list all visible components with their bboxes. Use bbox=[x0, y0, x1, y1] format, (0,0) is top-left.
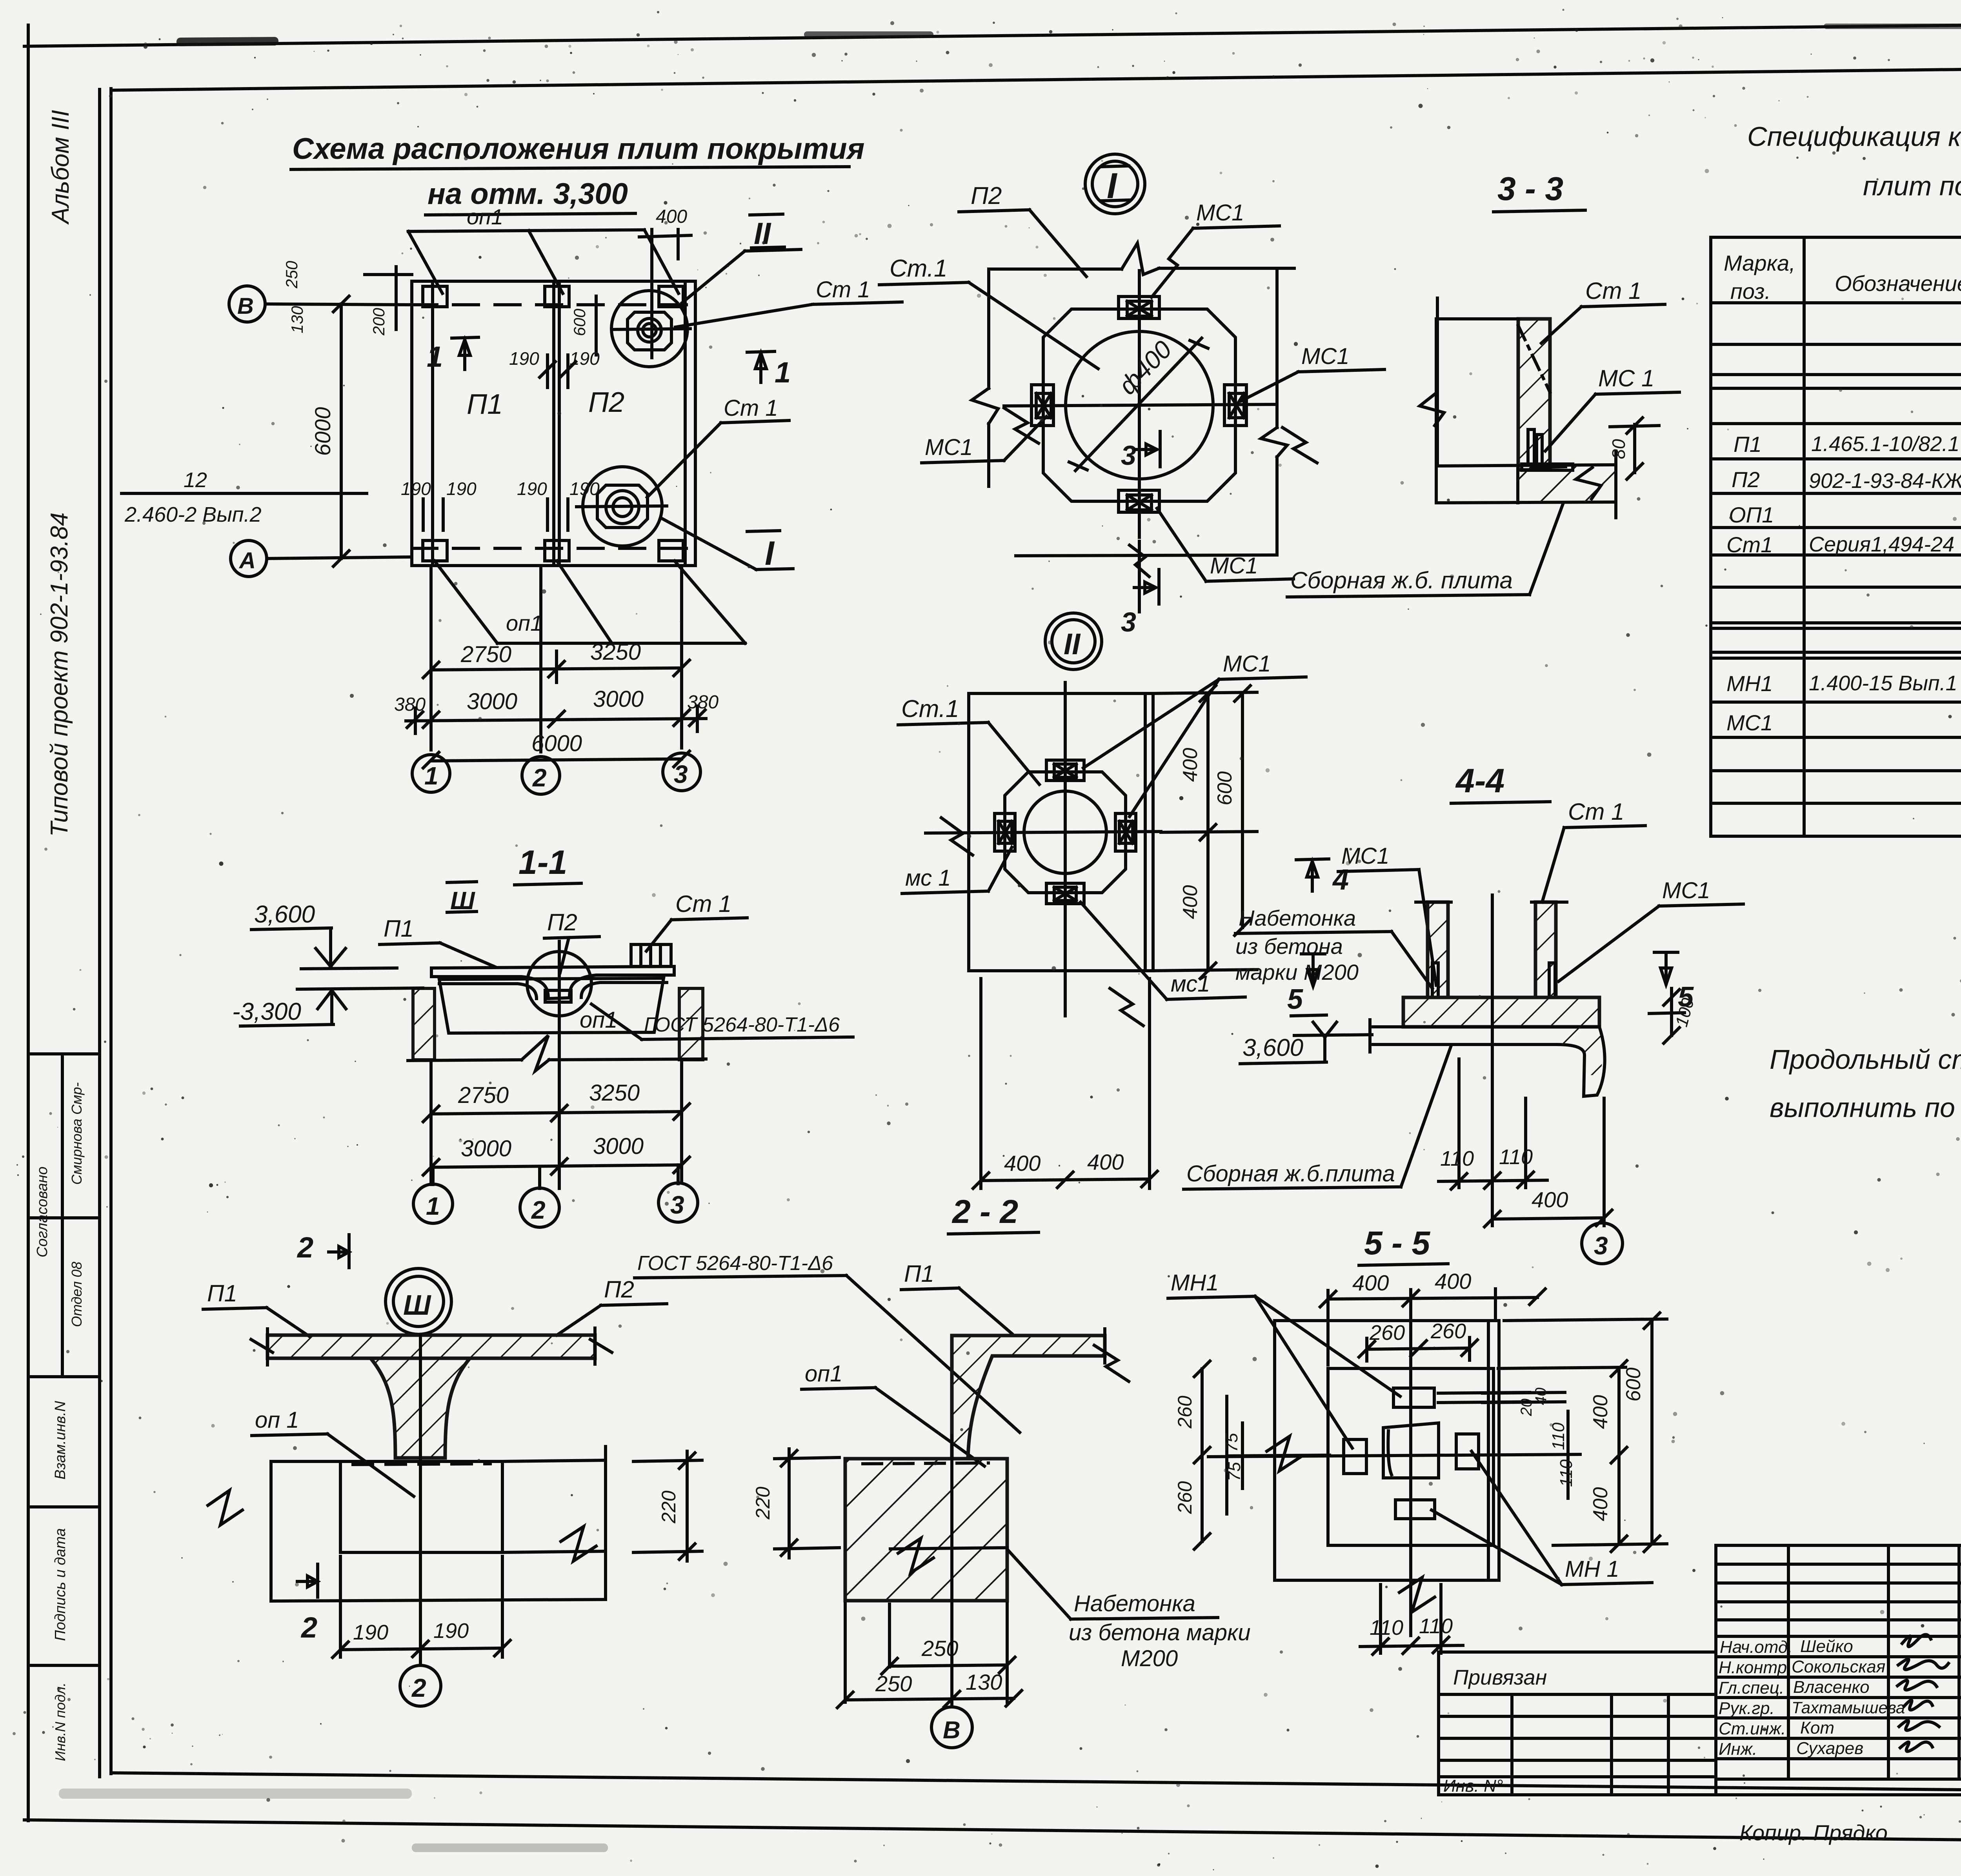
svg-text:100: 100 bbox=[1672, 996, 1698, 1029]
slab square bbox=[969, 693, 1153, 971]
svg-text:Подпись и дата: Подпись и дата bbox=[52, 1528, 69, 1641]
PLAN VIEW: layout of cover slabs bbox=[122, 204, 902, 794]
svg-text:Взам.инв.N: Взам.инв.N bbox=[52, 1401, 69, 1479]
svg-text:3 - 3: 3 - 3 bbox=[1497, 170, 1563, 207]
joint key bbox=[545, 990, 571, 1002]
svg-text:3: 3 bbox=[1121, 440, 1136, 471]
svg-text:МС1: МС1 bbox=[1210, 553, 1258, 579]
svg-text:МН1: МН1 bbox=[1726, 671, 1773, 696]
svg-text:1: 1 bbox=[775, 356, 791, 389]
svg-text:3: 3 bbox=[1121, 607, 1136, 637]
SECTION 2-2 bbox=[635, 1193, 1251, 1748]
octagon opening bbox=[1043, 309, 1235, 501]
svg-text:110: 110 bbox=[1549, 1422, 1568, 1450]
anchor pins MC1 bbox=[1432, 963, 1438, 997]
svg-text:оп1: оп1 bbox=[805, 1361, 842, 1387]
svg-text:1: 1 bbox=[426, 1192, 440, 1220]
svg-text:3000: 3000 bbox=[593, 1134, 644, 1159]
left dims 260 75 75 260 bbox=[1225, 1396, 1228, 1514]
svg-text:Тахтамышева: Тахтамышева bbox=[1792, 1698, 1905, 1717]
svg-text:190: 190 bbox=[517, 479, 547, 499]
svg-text:400: 400 bbox=[1352, 1270, 1389, 1295]
MC1 clips bbox=[1046, 760, 1084, 781]
svg-text:130: 130 bbox=[966, 1670, 1002, 1694]
svg-text:902-1-93-84-КЖН-П2: 902-1-93-84-КЖН-П2 bbox=[1809, 469, 1961, 493]
svg-text:П2: П2 bbox=[547, 909, 577, 935]
svg-text:5 - 5: 5 - 5 bbox=[1364, 1225, 1430, 1261]
dims 110 110 bbox=[1457, 1059, 1461, 1188]
svg-text:Нач.отд.: Нач.отд. bbox=[1720, 1638, 1792, 1657]
svg-text:380: 380 bbox=[687, 692, 719, 713]
svg-text:ф400: ф400 bbox=[1113, 335, 1177, 400]
svg-text:марки М200: марки М200 bbox=[1235, 960, 1359, 984]
svg-text:поз.: поз. bbox=[1730, 279, 1771, 304]
SECTION 5-5 bbox=[1168, 1225, 1667, 1654]
svg-text:Власенко: Власенко bbox=[1793, 1678, 1870, 1697]
svg-text:2: 2 bbox=[297, 1231, 313, 1264]
svg-text:Типовой проект 902-1-93.84: Типовой проект 902-1-93.84 bbox=[46, 513, 73, 837]
glass St1 top: detail circle bbox=[611, 291, 688, 367]
svg-text:3000: 3000 bbox=[593, 686, 644, 712]
svg-text:3,600: 3,600 bbox=[1242, 1034, 1303, 1061]
svg-text:Обозначение: Обозначение bbox=[1835, 271, 1961, 296]
flange band hatched bbox=[1403, 997, 1599, 1027]
svg-text:Ст 1: Ст 1 bbox=[724, 395, 778, 421]
break on center vertical bbox=[1399, 1578, 1435, 1612]
svg-text:из бетона марки: из бетона марки bbox=[1069, 1620, 1251, 1645]
svg-text:75: 75 bbox=[1225, 1462, 1244, 1481]
svg-text:Схема расположения плит покрыт: Схема расположения плит покрытия bbox=[292, 132, 864, 166]
svg-text:В: В bbox=[237, 293, 254, 319]
svg-text:Инв.N подл.: Инв.N подл. bbox=[52, 1683, 68, 1761]
svg-text:220: 220 bbox=[658, 1490, 680, 1524]
svg-text:2: 2 bbox=[532, 764, 547, 792]
svg-text:190: 190 bbox=[569, 479, 600, 499]
svg-text:400: 400 bbox=[656, 206, 687, 227]
svg-text:П1: П1 bbox=[467, 389, 503, 420]
right dims 400 400 bbox=[1498, 1367, 1626, 1368]
joint between slabs bbox=[552, 281, 555, 566]
svg-text:Альбом III: Альбом III bbox=[47, 110, 74, 225]
svg-text:1: 1 bbox=[427, 340, 443, 373]
bottom precast slab bbox=[1436, 465, 1616, 466]
svg-text:260: 260 bbox=[1430, 1319, 1466, 1343]
dims 2750 3250 bbox=[429, 1063, 433, 1185]
bottom dims bbox=[888, 1604, 891, 1667]
centerlines bbox=[1138, 271, 1141, 537]
grid bubble 3 bbox=[1582, 1223, 1623, 1264]
svg-text:А: А bbox=[238, 548, 256, 573]
svg-text:110: 110 bbox=[1370, 1616, 1403, 1639]
svg-text:Гл.спец.: Гл.спец. bbox=[1719, 1678, 1784, 1698]
named rows bbox=[1716, 1635, 1961, 1638]
dims 190 190 bbox=[339, 1556, 342, 1657]
svg-text:Отдел 08: Отдел 08 bbox=[69, 1262, 85, 1327]
svg-text:190: 190 bbox=[446, 479, 477, 499]
svg-text:ГОСТ 5264-80-Т1-Δ6: ГОСТ 5264-80-Т1-Δ6 bbox=[644, 1014, 840, 1036]
grid bubbles bbox=[431, 1167, 435, 1185]
svg-text:190: 190 bbox=[353, 1621, 388, 1644]
vertical dim 6000 left bbox=[340, 304, 343, 559]
right dim 600 bbox=[1504, 1319, 1667, 1321]
DETAIL I bbox=[879, 154, 1384, 637]
svg-text:1: 1 bbox=[424, 762, 438, 790]
inner square (glass plan) bbox=[1328, 1368, 1493, 1545]
grid bubbles 1 2 3 bbox=[412, 755, 450, 792]
svg-text:Сборная ж.б.плита: Сборная ж.б.плита bbox=[1186, 1161, 1395, 1186]
svg-text:3000: 3000 bbox=[467, 689, 517, 714]
svg-text:3250: 3250 bbox=[589, 1080, 640, 1106]
svg-text:ОП1: ОП1 bbox=[1729, 502, 1774, 527]
svg-text:II: II bbox=[754, 216, 771, 251]
svg-text:Шейко: Шейко bbox=[1800, 1637, 1853, 1656]
svg-text:3: 3 bbox=[1594, 1232, 1608, 1260]
svg-text:плит покрытия: плит покрытия bbox=[1863, 171, 1961, 201]
svg-text:Ст1: Ст1 bbox=[1726, 532, 1773, 557]
svg-text:260: 260 bbox=[1174, 1481, 1196, 1514]
St1 sleeve above bbox=[631, 944, 671, 966]
svg-text:П1: П1 bbox=[207, 1280, 237, 1306]
svg-text:оп1: оп1 bbox=[467, 204, 503, 229]
svg-text:МС1: МС1 bbox=[1196, 200, 1244, 226]
svg-text:на отм. 3,300: на отм. 3,300 bbox=[427, 177, 628, 211]
svg-text:2 - 2: 2 - 2 bbox=[951, 1193, 1018, 1230]
svg-text:оп 1: оп 1 bbox=[255, 1407, 299, 1433]
svg-text:Ст.1: Ст.1 bbox=[901, 695, 959, 722]
detail mark III double circle bbox=[386, 1268, 451, 1334]
small dims 20 40 bbox=[1483, 1392, 1565, 1393]
svg-text:Сборная ж.б. плита: Сборная ж.б. плита bbox=[1290, 567, 1513, 593]
svg-text:3: 3 bbox=[674, 760, 688, 788]
svg-text:Копир. Прядко: Копир. Прядко bbox=[1739, 1820, 1888, 1845]
svg-text:190: 190 bbox=[401, 479, 431, 499]
MC1 clip left bbox=[1031, 385, 1053, 426]
centerline + bubble 2 bbox=[419, 1336, 422, 1665]
SECTION 3-3 bbox=[1287, 170, 1679, 597]
svg-text:П2: П2 bbox=[971, 182, 1002, 209]
svg-text:250: 250 bbox=[282, 260, 301, 289]
signature squiggles bbox=[1902, 1634, 1931, 1647]
surrounding foundation outline bbox=[271, 1460, 340, 1463]
centerlines bbox=[1064, 682, 1067, 1016]
svg-text:12: 12 bbox=[184, 468, 207, 492]
dim 100 right bbox=[1670, 988, 1673, 1035]
svg-text:Смирнова Смр-: Смирнова Смр- bbox=[69, 1082, 85, 1185]
svg-text:1.465.1-10/82.1 -01: 1.465.1-10/82.1 -01 bbox=[1811, 432, 1961, 456]
glass St1 bottom: detail circle I bbox=[583, 467, 662, 546]
svg-text:П2: П2 bbox=[588, 387, 624, 418]
svg-text:2750: 2750 bbox=[460, 642, 511, 667]
svg-text:250: 250 bbox=[875, 1671, 912, 1696]
svg-text:Сокольская: Сокольская bbox=[1792, 1657, 1885, 1676]
MC1 clip right bbox=[1224, 385, 1246, 426]
svg-text:190: 190 bbox=[433, 1619, 469, 1643]
bottom dims 400 400 bbox=[979, 979, 982, 1188]
svg-text:МС 1: МС 1 bbox=[1598, 365, 1654, 391]
svg-text:400: 400 bbox=[1435, 1269, 1471, 1294]
MC1 anchor pin bbox=[1528, 429, 1534, 465]
svg-text:Ст 1: Ст 1 bbox=[675, 891, 731, 917]
svg-text:Ст 1: Ст 1 bbox=[1585, 278, 1641, 304]
svg-text:3,600: 3,600 bbox=[254, 901, 315, 928]
svg-text:Н.контр: Н.контр bbox=[1719, 1658, 1787, 1677]
svg-text:400: 400 bbox=[1179, 885, 1202, 919]
svg-text:МН1: МН1 bbox=[1171, 1270, 1219, 1296]
left extension box bbox=[1439, 1652, 1716, 1795]
svg-text:П2: П2 bbox=[604, 1276, 634, 1303]
svg-text:П1: П1 bbox=[1734, 432, 1762, 457]
slab flange hatched bbox=[267, 1335, 595, 1358]
svg-text:Ст 1: Ст 1 bbox=[816, 277, 870, 302]
svg-text:-3,300: -3,300 bbox=[232, 998, 301, 1025]
cup walls bbox=[1428, 902, 1448, 997]
svg-text:110: 110 bbox=[1440, 1147, 1474, 1170]
svg-text:Ш: Ш bbox=[403, 1290, 431, 1321]
svg-text:400: 400 bbox=[1179, 748, 1202, 782]
svg-text:МС1: МС1 bbox=[1301, 344, 1349, 369]
svg-text:Инв. N°: Инв. N° bbox=[1443, 1776, 1503, 1796]
svg-text:Рук.гр.: Рук.гр. bbox=[1719, 1699, 1775, 1718]
dim 220 left bbox=[775, 1457, 839, 1459]
dim row 2750 3250 bbox=[429, 566, 433, 750]
svg-text:400: 400 bbox=[1589, 1395, 1612, 1429]
support pads op1 bottom bbox=[423, 540, 447, 561]
svg-text:1-1: 1-1 bbox=[518, 844, 567, 881]
svg-text:2.460-2 Вып.2: 2.460-2 Вып.2 bbox=[124, 503, 262, 526]
main title bbox=[291, 132, 864, 215]
svg-text:Кот: Кот bbox=[1800, 1718, 1834, 1738]
wall column hatched bbox=[1518, 319, 1550, 470]
svg-text:400: 400 bbox=[1004, 1151, 1041, 1175]
svg-text:Продольный стык между комплекс: Продольный стык между комплексными плита… bbox=[1770, 1044, 1961, 1075]
dim 220 right bbox=[633, 1460, 702, 1461]
svg-text:II: II bbox=[1064, 628, 1081, 661]
svg-text:оп1: оп1 bbox=[506, 611, 542, 635]
dim 80 bbox=[1633, 424, 1636, 473]
svg-text:1.400-15 Вып.1: 1.400-15 Вып.1 bbox=[1809, 671, 1957, 695]
support pads op1 top bbox=[423, 286, 447, 307]
diagonal dim f400 bbox=[1075, 338, 1202, 471]
svg-text:75: 75 bbox=[1222, 1433, 1241, 1452]
svg-text:6000: 6000 bbox=[310, 407, 335, 456]
centerline bbox=[1491, 895, 1494, 1226]
svg-text:2750: 2750 bbox=[458, 1083, 509, 1108]
op1 support block bbox=[340, 1461, 502, 1552]
supports hatched bbox=[413, 988, 435, 1060]
svg-text:М200: М200 bbox=[1121, 1646, 1178, 1671]
svg-text:Марка,: Марка, bbox=[1724, 251, 1795, 275]
svg-text:190: 190 bbox=[569, 348, 600, 369]
weld detail circle bbox=[527, 952, 591, 1016]
left sidebar rotated captions bbox=[46, 110, 74, 837]
slab body left bbox=[1436, 317, 1518, 320]
svg-text:3000: 3000 bbox=[461, 1136, 511, 1161]
svg-text:400: 400 bbox=[1589, 1487, 1612, 1521]
detail mark II double circle bbox=[1045, 613, 1102, 670]
octagon opening bbox=[1005, 772, 1126, 893]
svg-text:600: 600 bbox=[570, 308, 589, 336]
ref mark 12 / 2.460-2 bbox=[122, 492, 367, 495]
small dims 110 110 right bbox=[1566, 1411, 1570, 1498]
svg-text:260: 260 bbox=[1174, 1396, 1196, 1429]
svg-text:мс 1: мс 1 bbox=[905, 865, 951, 891]
svg-text:П1: П1 bbox=[384, 915, 414, 942]
svg-text:200: 200 bbox=[369, 308, 388, 336]
spec table title bbox=[1747, 121, 1961, 201]
MC1 clip top bbox=[1119, 297, 1159, 318]
svg-text:3250: 3250 bbox=[590, 639, 641, 665]
op1 block hatched bbox=[845, 1459, 1007, 1601]
svg-text:МС1: МС1 bbox=[925, 435, 973, 460]
DETAIL II bbox=[898, 613, 1306, 1188]
svg-text:220: 220 bbox=[752, 1487, 774, 1520]
svg-text:Ст.инж.: Ст.инж. bbox=[1719, 1719, 1786, 1738]
op1 pad trapezoid bbox=[439, 978, 664, 1033]
svg-text:400: 400 bbox=[1532, 1187, 1568, 1212]
svg-text:600: 600 bbox=[1213, 772, 1236, 806]
T-rib hatched bbox=[371, 1358, 470, 1458]
svg-text:4-4: 4-4 bbox=[1455, 762, 1504, 800]
svg-text:Набетонка: Набетонка bbox=[1074, 1591, 1195, 1616]
centerline + bubble B bbox=[950, 1436, 953, 1707]
svg-text:Спецификация к схеме располож: Спецификация к схеме расположения bbox=[1747, 121, 1961, 152]
lower band with hook bbox=[1370, 1025, 1599, 1028]
grid axis B bbox=[229, 286, 265, 322]
svg-text:400: 400 bbox=[1087, 1150, 1124, 1174]
svg-text:П2: П2 bbox=[1732, 467, 1760, 492]
svg-text:выполнить по серии 1.465.1-10/: выполнить по серии 1.465.1-10/82.0-01у bbox=[1770, 1092, 1961, 1123]
note text right middle bbox=[1770, 1044, 1961, 1123]
svg-text:2: 2 bbox=[531, 1196, 546, 1224]
SPECIFICATION TABLE bbox=[1711, 237, 1961, 836]
slab edges with breaks bbox=[989, 267, 1122, 271]
svg-text:6000: 6000 bbox=[531, 731, 582, 756]
blank top rows bbox=[1716, 1563, 1961, 1566]
grid axis A bbox=[231, 540, 267, 577]
embedded plates MN1 bbox=[1393, 1388, 1434, 1407]
svg-text:МС1: МС1 bbox=[1223, 651, 1271, 677]
beam slabs bbox=[431, 966, 674, 968]
svg-text:МС1: МС1 bbox=[1662, 878, 1710, 903]
svg-text:5: 5 bbox=[1287, 984, 1303, 1015]
svg-text:3: 3 bbox=[670, 1191, 684, 1219]
SECTION 4-4 bbox=[1184, 762, 1743, 1264]
cut mark 4 bbox=[1296, 859, 1329, 860]
right dims 400 600 400 bbox=[1153, 692, 1257, 693]
svg-text:Набетонка: Набетонка bbox=[1239, 906, 1356, 930]
slab P1 (rib left, flange right) bbox=[952, 1336, 1105, 1459]
svg-text:П1: П1 bbox=[904, 1261, 934, 1287]
svg-text:ГОСТ 5264-80-Т1-Δ6: ГОСТ 5264-80-Т1-Δ6 bbox=[637, 1252, 833, 1275]
ground line with break bbox=[408, 1060, 522, 1061]
svg-text:Согласовано: Согласовано bbox=[34, 1166, 51, 1257]
MC1 clip bottom bbox=[1119, 490, 1159, 512]
SECTION 1-1 bbox=[232, 844, 853, 1227]
svg-text:110: 110 bbox=[1419, 1614, 1453, 1638]
axis dashed lines inside bbox=[412, 303, 695, 306]
detail mark I double circle bbox=[1085, 154, 1145, 214]
svg-text:130: 130 bbox=[288, 306, 306, 333]
svg-text:2: 2 bbox=[300, 1611, 317, 1644]
top dims 400 400 bbox=[1326, 1290, 1330, 1365]
svg-text:Ст 1: Ст 1 bbox=[1568, 799, 1624, 825]
left sidebar bottom stamp cells bbox=[28, 1054, 100, 1761]
centerlines bbox=[1409, 1290, 1412, 1636]
outer slab square bbox=[1275, 1321, 1499, 1580]
svg-text:из бетона: из бетона bbox=[1235, 934, 1343, 959]
svg-text:110: 110 bbox=[1557, 1459, 1576, 1487]
svg-text:Инж.: Инж. bbox=[1719, 1740, 1757, 1759]
svg-text:I: I bbox=[765, 535, 775, 572]
svg-text:Ст.1: Ст.1 bbox=[890, 255, 947, 282]
svg-text:600: 600 bbox=[1622, 1368, 1645, 1402]
opening circle bbox=[1066, 331, 1213, 479]
bottom dims 110 110 bbox=[1379, 1585, 1382, 1653]
TITLE BLOCK bbox=[1439, 1545, 1961, 1853]
svg-text:2: 2 bbox=[411, 1673, 426, 1702]
svg-text:В: В bbox=[943, 1717, 960, 1744]
svg-text:Сухарев: Сухарев bbox=[1796, 1739, 1863, 1758]
DETAIL III / SECTION AT AXIS 2 (bottom left) bbox=[203, 1231, 702, 1706]
svg-text:Серия1,494-24 Вып. 1: Серия1,494-24 Вып. 1 bbox=[1809, 533, 1961, 556]
svg-text:110: 110 bbox=[1499, 1145, 1533, 1169]
svg-text:МС1: МС1 bbox=[1726, 710, 1773, 735]
slab field square bbox=[412, 281, 695, 566]
svg-text:80: 80 bbox=[1608, 439, 1629, 459]
svg-text:Привязан: Привязан bbox=[1453, 1666, 1547, 1689]
svg-text:190: 190 bbox=[509, 348, 539, 369]
left columns bbox=[1787, 1545, 1790, 1779]
svg-text:40: 40 bbox=[1532, 1388, 1550, 1405]
